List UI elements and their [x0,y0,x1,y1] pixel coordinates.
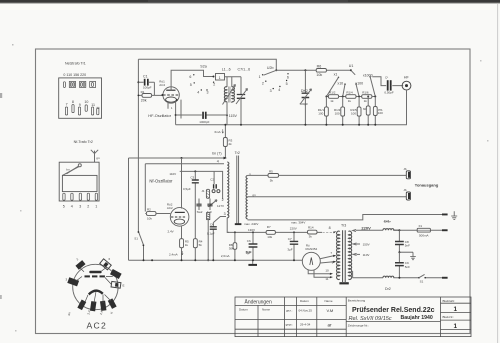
choke Dr2 [383,276,394,278]
AC2 socket pin top-left [75,260,85,270]
svg-text:Änderungen: Änderungen [245,299,272,306]
V1 grid dashes [163,94,178,96]
jack return wire [406,90,408,125]
wire: cathode line 115V with series capacitor [176,114,227,116]
V2 top cap lead [181,158,183,209]
terminal polarity dash [235,223,242,225]
Tr1 pin 0 [63,82,65,88]
Tr3 core [343,230,346,282]
Tr3 primary winding [337,231,340,279]
Tr2 connection box [59,162,99,201]
U1 wiper arm [351,70,355,75]
poti arrow [208,200,217,207]
tube V1 Roe1 AC2 [163,87,179,103]
shunt resistor R1/5 [358,96,360,98]
series resistor R1/6 [362,95,372,99]
rail end dash B+ [442,229,448,231]
V1 cathode dome [166,97,177,102]
title block vertical lines [258,297,441,337]
AC2 socket circle [73,264,118,309]
Tonausgang terminal lower [406,192,410,200]
node DK2 bottom [304,124,306,126]
Tr3 secondary winding [348,231,351,279]
svg-text:Zeichnungs-Nr.:: Zeichnungs-Nr.: [348,324,369,328]
AC2 socket pin bottom3 [100,301,106,311]
Blattzahl cell dividers [441,303,472,329]
capacitor C3 [194,171,196,238]
chassis ground bar [248,264,257,266]
svg-text:Blatt-Nr.:: Blatt-Nr.: [443,315,455,319]
capacitor C6 [252,232,254,260]
Tr2 core lines [237,156,239,226]
Tr3 ground bar [339,282,348,284]
anode resistor R4 [194,248,196,261]
Bezeichnung cell divider [346,321,440,323]
page right edge shadow [497,4,499,343]
switch S2b corner node [275,69,277,71]
U1 wiper node [350,69,352,71]
wire: ground bus [129,259,303,261]
V1 cathode legs [168,100,181,125]
Tr1 link box 156 [80,82,86,88]
bn arrow to terminal circle [67,166,79,174]
S2b wiper [264,70,277,75]
L variable arrow [223,85,236,105]
capacitor C1 [138,81,154,83]
shunt resistor R1/1 [325,96,327,98]
wire: main lower bus [176,124,407,126]
Tr3 tap 150V [353,243,356,245]
rail end dash bottom [442,277,448,279]
variable capacitor C7 [240,77,242,125]
potentiometer Pf1 [374,96,376,98]
capacitor C10 [387,80,389,90]
wire: outer left vertical [128,158,130,260]
Tr1 pin 9 [78,107,80,115]
svg-text:Name: Name [325,299,333,303]
wires RGN354 to Tr3 taps 7 9 [320,256,334,263]
tube V2 Roe2 AC2 [170,208,189,227]
Tr1 connection box [59,78,102,118]
socket internal connector lines [76,267,113,303]
RGN354 filament [310,258,313,266]
chassis ground right [451,211,457,219]
Tr2 pin 3 [79,193,81,200]
shunt resistor R1/3 [342,96,344,98]
svg-text:gepr.:: gepr.: [286,322,294,326]
Tr1 pin 11 [92,107,94,115]
wires from contacts to ladder nodes [326,77,375,97]
cathode resistor Rk [181,226,183,260]
node C7 bottom [240,124,242,126]
svg-text:Prüfsender Rel.Send.22c: Prüfsender Rel.Send.22c [352,307,435,314]
wire: Tonausgang lower [248,196,407,198]
capacitor 1000pF [202,112,204,119]
resistor R1 [142,94,152,98]
series resistor R1/2 [328,95,338,99]
wire: top grid bus [138,59,276,70]
C7 arrow [236,89,248,105]
output wire to coupling cap [372,77,403,86]
wire: 130V rail [227,231,322,233]
svg-text:Datum: Datum [239,307,248,311]
scan edge smudges [0,93,2,98]
Tonausgang terminal upper [406,171,410,179]
node at C1 left [137,81,139,83]
rectifier tube RGN354 [302,252,320,270]
tank top wire [225,76,242,78]
wire: grid bus NF [129,157,224,159]
AC2 socket pin top-right (outlined) [100,259,112,270]
hatched resistor [207,213,210,220]
Tr2 pin 1 [95,193,97,200]
fuse F1 [417,228,430,232]
capacitor C4 [212,223,214,261]
resistor R14 [308,230,318,234]
wire C1 right to R1 right [153,82,155,95]
node DK2 top [304,69,306,71]
resistor R6 [316,69,326,73]
Tr2 pin 4 [71,193,73,200]
svg-text:V.M: V.M [327,308,334,313]
Tr3 tap 110V [353,253,356,255]
wire: plate rail 110V [180,171,223,199]
capacitor C8 [398,230,400,252]
AC2 cathode arc [89,291,103,295]
V1 top cap lead to S2a wiper [171,70,213,90]
resistor R5 out [268,174,279,178]
feedback caps pair [199,199,210,211]
Tr1 pin extra [97,108,99,115]
Tr1 pin 7 [65,107,67,115]
wire: NF sub line [145,164,224,212]
svg-text:Datum: Datum [300,299,309,303]
AC2 anode bar [89,271,101,273]
AC2 socket pin bottom1 [77,300,86,311]
svg-text:Blattzahl:: Blattzahl: [443,299,456,303]
svg-text:04.Nov.25: 04.Nov.25 [299,309,313,313]
svg-text:1: 1 [454,323,458,330]
resistor R2 [146,212,156,216]
shunt resistor R1/7 [367,96,369,98]
title block outer frame [235,297,471,337]
Tr1 link box 220 [90,82,96,88]
rail end dash [442,214,448,216]
wire Dr1 to fuse F1 [393,229,442,231]
svg-text:ar: ar [328,322,333,327]
ladder bottom nodes [325,124,327,126]
series resistor R1/4 [346,95,356,99]
antenna symbol gn lead [91,150,98,176]
Tr2 pin 5 [63,193,65,200]
switch S1 [138,232,143,261]
AC2 socket pin right E (outlined) [111,281,121,288]
resistor R3 feed [224,125,226,158]
Tr1 pin 8 [72,105,74,113]
AC2 grid dashes [85,275,90,277]
node C7 top [293,231,295,233]
AC2 socket pin bottom4 [108,298,117,309]
wire: bottom rail [353,277,443,279]
wire tap3 to C4 [213,217,226,223]
svg-text:Bezeichnung: Bezeichnung [348,299,366,303]
ladder top chain wire [326,96,375,98]
wire: left vertical grid line [137,59,139,231]
V1 anode bar [166,89,175,91]
Tr3 tap 220V [353,230,356,232]
coil L1...6 [226,77,228,87]
V2 grid dashes [171,216,185,218]
Tr2 inner winding box [62,175,97,191]
node L bottom / 115V [226,114,228,116]
variable capacitor DK2 [304,70,306,125]
HF output jack [402,81,411,90]
wire: Tonausgang upper with resistor R5 [248,174,407,176]
Tr1 pin 10 [85,105,87,111]
Tr2 right winding [246,176,248,219]
capacitor C9 [398,252,400,278]
resistor R7 [266,231,275,235]
svg-text:29-4-34: 29-4-34 [300,322,311,326]
node R8 top [234,231,236,233]
svg-text:Baujahr 1940: Baujahr 1940 [401,315,433,321]
svg-text:Name: Name [262,307,270,311]
svg-text:1: 1 [454,306,458,313]
scanner black bar top [0,0,500,3]
Tr2 pin 2 [87,193,89,200]
Tr2 left winding [227,162,229,218]
node C6 top [252,231,254,233]
AC2 socket pin left [67,277,79,286]
wire: bus to R6 [276,69,351,71]
AC2 socket pin right-upper [110,269,122,279]
Tr1 link box 110 [69,82,75,88]
capacitor C7 [293,232,295,260]
V2 cathode dome [174,219,184,224]
svg-text:Rel. SxVII 09/15c: Rel. SxVII 09/15c [349,316,392,322]
Tr2 winding bottom to 130V wire [227,218,229,233]
V2 anode bar [175,211,185,213]
node tube cap on bus [181,157,183,159]
RGN354 filament to taps 10 11 [308,270,330,278]
AC2 socket pin bottom2 [90,301,96,311]
svg-text:gez.:: gez.: [286,309,293,313]
mid ground stub [399,252,415,260]
S2a contact 1 box [216,74,225,81]
title block horizontal lines left section [235,305,346,329]
resistor R8 [234,232,236,260]
drawing border frame [36,49,471,334]
switch S1b [418,277,420,279]
wire: return rail to chassis [248,215,443,220]
